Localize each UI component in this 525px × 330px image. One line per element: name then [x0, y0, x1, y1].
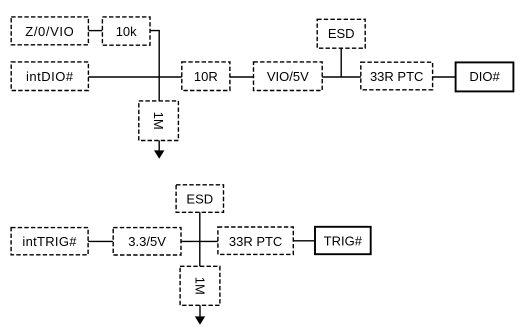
resistor 33R PTC bottom [218, 227, 293, 254]
resistor 33R PTC top [361, 62, 433, 90]
block intDIO# [11, 62, 88, 91]
block intTRIG# [11, 228, 88, 255]
resistor 10k [102, 17, 150, 45]
svg-text:intDIO#: intDIO# [26, 69, 74, 84]
block Z/0/VIO [11, 17, 88, 45]
wire 33R PTC to DIO# [433, 76, 456, 78]
svg-text:ESD: ESD [186, 191, 213, 206]
wire VIO/5V to 33R PTC [322, 76, 361, 78]
block VIO/5V [254, 62, 323, 91]
ESD protection top [317, 19, 365, 48]
resistor 1M top [139, 101, 179, 141]
resistor 1M bottom [180, 266, 220, 305]
svg-text:ESD: ESD [328, 26, 355, 41]
svg-text:33R PTC: 33R PTC [370, 69, 423, 84]
svg-text:VIO/5V: VIO/5V [267, 69, 309, 84]
port DIO# [456, 62, 514, 91]
svg-text:intTRIG#: intTRIG# [22, 234, 77, 249]
wire 3.3/5V to 33R PTC through node B [181, 240, 218, 242]
svg-text:Z/0/VIO: Z/0/VIO [25, 24, 74, 39]
wire 10k elbow down to node A [150, 31, 159, 101]
wire intTRIG# to 3.3/5V [88, 240, 113, 242]
block 3.3/5V [113, 228, 181, 255]
wire 1M bottom to ground arrow [199, 305, 201, 318]
svg-text:33R PTC: 33R PTC [229, 234, 282, 249]
ground arrow top [154, 150, 164, 158]
svg-text:1M: 1M [151, 112, 166, 130]
svg-text:TRIG#: TRIG# [324, 234, 363, 249]
svg-text:10k: 10k [116, 24, 137, 39]
wire Z/0/VIO to 10k [88, 30, 102, 32]
resistor 10R [182, 62, 230, 91]
wire intDIO# to 10R through node A [88, 76, 181, 78]
wire ESD bottom drop through node B to 1M [199, 212, 201, 266]
wire 33R PTC to TRIG# [293, 240, 315, 242]
ground arrow bottom [195, 316, 205, 324]
wire ESD top drop to bus [340, 48, 342, 77]
wire 10R to VIO/5V [230, 76, 254, 78]
port TRIG# [315, 227, 371, 254]
wire 1M to ground arrow [158, 141, 160, 153]
svg-text:10R: 10R [194, 69, 218, 84]
svg-text:1M: 1M [192, 277, 207, 295]
svg-text:DIO#: DIO# [469, 69, 500, 84]
ESD protection bottom [176, 185, 223, 213]
svg-text:3.3/5V: 3.3/5V [128, 234, 166, 249]
